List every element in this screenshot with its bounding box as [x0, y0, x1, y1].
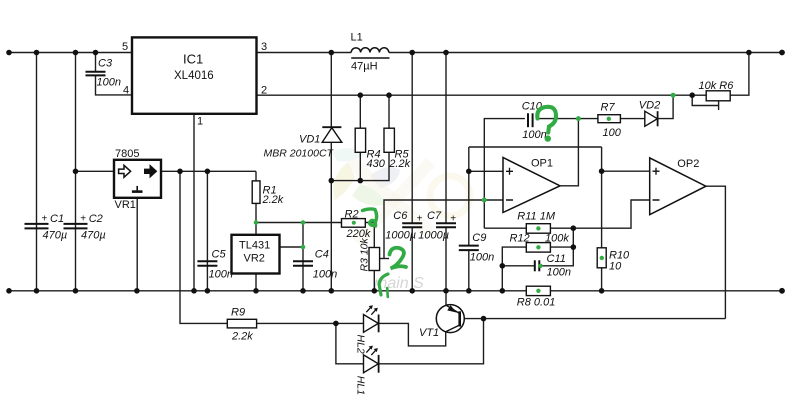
green annotation check mark at R3 bottom — [379, 274, 388, 295]
wire 7805 ground — [136, 192, 138, 291]
green annotation numeral 2 — [390, 248, 407, 269]
node R3 ground junction — [372, 288, 378, 294]
wire VD2 to feedback node — [658, 95, 674, 118]
wire C3 to pin4 — [96, 76, 133, 95]
svg-text:2.2k: 2.2k — [388, 158, 410, 170]
svg-text:C1: C1 — [50, 213, 64, 225]
wire VT1 base line — [460, 318, 726, 320]
capacitor C9 — [459, 232, 494, 264]
wire R6 left — [692, 94, 706, 96]
node C5 ground junction — [205, 288, 211, 294]
svg-text:VR1: VR1 — [115, 199, 136, 211]
svg-text:C3: C3 — [98, 58, 113, 70]
svg-text:R9: R9 — [231, 306, 245, 318]
svg-text:100n: 100n — [470, 252, 494, 264]
svg-text:+: + — [417, 214, 423, 225]
svg-text:VR2: VR2 — [244, 252, 265, 264]
wire HL1 cathode to VT1 base — [379, 319, 484, 364]
node VR2 ground junction — [253, 288, 259, 294]
wire link OP1 plus to OP2 plus — [469, 146, 602, 148]
node C7 output rail junction — [443, 50, 449, 56]
wire OP2 plus input — [602, 170, 650, 172]
resistor R7 — [598, 102, 622, 140]
node OP1 noninverting junction — [466, 169, 472, 175]
svg-text:4: 4 — [123, 85, 129, 97]
svg-text:2.2k: 2.2k — [231, 331, 253, 343]
capacitor C1 — [25, 213, 68, 242]
svg-text:C9: C9 — [472, 232, 486, 244]
svg-text:R11 1M: R11 1M — [517, 210, 556, 222]
svg-text:IC1: IC1 — [183, 52, 203, 67]
node output terminal positive — [779, 50, 785, 56]
node VD1 anode junction — [329, 178, 335, 184]
LED HL2 — [355, 305, 379, 354]
wire R1 to 7805 output — [255, 171, 257, 181]
svg-text:2.2k: 2.2k — [262, 194, 284, 206]
IC box IC1 XL4016 — [122, 37, 267, 127]
wire 7805 input — [76, 170, 115, 172]
svg-text:C11: C11 — [547, 253, 566, 265]
node output terminal negative — [779, 288, 785, 294]
resistor R11 — [517, 210, 556, 233]
svg-text:470µ: 470µ — [43, 230, 68, 242]
capacitor C10 — [522, 101, 547, 141]
wire R1 to TL431 — [255, 203, 257, 234]
svg-text:VD1: VD1 — [299, 134, 320, 146]
node VD1 cathode rail junction — [329, 50, 335, 56]
svg-text:100n: 100n — [97, 77, 121, 89]
svg-text:XL4016: XL4016 — [174, 70, 214, 82]
svg-text:+: + — [450, 214, 456, 225]
capacitor C11 — [535, 253, 571, 279]
svg-text:5: 5 — [122, 41, 128, 53]
wire R2 to R3 — [365, 223, 374, 248]
svg-text:C4: C4 — [315, 249, 329, 261]
wire C1 branch — [36, 53, 38, 291]
resistor R5 — [384, 128, 411, 170]
node input terminal negative — [6, 288, 12, 294]
svg-text:100n: 100n — [522, 129, 546, 141]
wire R11 right to OP2 inverting — [550, 200, 649, 228]
node 7805 input junction — [73, 169, 79, 175]
node OP2 noninverting junction — [599, 168, 605, 174]
wire R9 right to HL2 — [257, 322, 364, 324]
node C7 VT1 emitter ground junction — [443, 288, 449, 294]
node R12 C11 ground junction — [500, 288, 506, 294]
svg-text:470µ: 470µ — [81, 230, 106, 242]
green annotation tick on rail — [386, 288, 389, 297]
node R4 top junction — [358, 92, 364, 98]
svg-text:+: + — [42, 214, 48, 225]
resistor R12 — [510, 232, 570, 252]
LED HL1 — [355, 346, 379, 395]
annotation dot OP1 inverting node — [482, 198, 487, 203]
wire R5 top — [388, 95, 390, 128]
wire R12 left — [502, 247, 526, 291]
wire C5 branch — [206, 171, 208, 290]
node R6 left feedback junction — [689, 92, 695, 98]
annotation dot R7 body — [607, 117, 611, 121]
svg-text:100n: 100n — [313, 268, 337, 280]
wire R4 R5 bottoms — [331, 152, 389, 180]
svg-text:OP1: OP1 — [531, 158, 553, 170]
svg-text:100: 100 — [603, 127, 622, 139]
node C6 ground junction — [409, 288, 415, 294]
annotation dot C11 — [538, 264, 542, 268]
node C2 top junction — [73, 50, 79, 56]
node C11 left junction — [500, 263, 506, 269]
wire top rail left — [7, 52, 132, 54]
svg-text:VT1: VT1 — [419, 327, 439, 339]
capacitor C3 — [86, 58, 121, 89]
wire R12 right — [550, 246, 573, 248]
node VT1 base junction — [481, 316, 487, 322]
green annotation dots — [254, 93, 676, 293]
trimmer R3 — [358, 237, 379, 271]
wire TL431 ref pin — [280, 246, 304, 248]
wire C4 branch — [302, 223, 304, 291]
wire R10 branch — [601, 147, 603, 248]
svg-text:TL431: TL431 — [239, 239, 270, 251]
svg-text:C5: C5 — [212, 249, 227, 261]
svg-text:100n: 100n — [209, 268, 233, 280]
svg-text:R7: R7 — [601, 102, 616, 114]
node R6 riser rail junction — [746, 50, 752, 56]
node C5 top junction — [205, 169, 211, 175]
svg-text:2: 2 — [261, 85, 267, 97]
green annotation question mark at C10 — [537, 107, 556, 142]
shunt regulator VR2 TL431 — [232, 235, 280, 274]
shunt resistor R8 — [517, 286, 556, 308]
wire R6 wiper loop — [692, 95, 718, 105]
resistor R2 — [342, 208, 371, 240]
wire ref line TL431 to R2 — [256, 222, 342, 224]
wire R6 right to top rail — [730, 53, 749, 96]
node C2 ground junction — [73, 288, 79, 294]
capacitor C4 — [293, 249, 337, 281]
diode VD1 — [264, 127, 342, 159]
svg-text:10k R6: 10k R6 — [699, 80, 735, 92]
annotation dot R12 body — [536, 245, 540, 249]
svg-text:1000µ: 1000µ — [418, 229, 449, 241]
resistor R1 — [252, 181, 284, 206]
wire C10 right to R7 — [536, 118, 598, 120]
resistor R10 — [597, 248, 630, 272]
svg-text:220k: 220k — [346, 228, 371, 240]
annotation dot VD2 feedback node — [671, 93, 676, 98]
inductor L1 — [351, 32, 390, 73]
wire C11 left — [502, 265, 534, 267]
wire R9 left riser — [180, 171, 227, 323]
node VD1 ground junction — [329, 288, 335, 294]
svg-text:430: 430 — [367, 158, 386, 170]
node C1 ground junction — [34, 288, 40, 294]
wire C10 left to inverting node — [484, 119, 525, 229]
wire C6 branch — [411, 53, 413, 223]
node VR1 ground junction — [134, 288, 140, 294]
svg-text:+: + — [80, 214, 86, 225]
wire pin1 to ground — [193, 114, 195, 291]
wire R3 wiper to OP1 inverting input — [380, 258, 389, 260]
node C3 top junction — [93, 50, 99, 56]
wire bottom ground rail — [7, 290, 784, 292]
svg-text:1: 1 — [197, 116, 203, 128]
capacitor C2 — [64, 213, 106, 242]
annotation dot node C4 top — [301, 220, 306, 225]
annotation dot R11 body — [536, 226, 540, 230]
svg-text:C2: C2 — [89, 213, 103, 225]
svg-text:OP2: OP2 — [677, 158, 699, 170]
node input terminal positive — [6, 50, 12, 56]
annotation dot R2 body — [352, 221, 356, 225]
svg-text:HL1: HL1 — [355, 376, 367, 395]
watermark — [332, 148, 470, 292]
node R5 top junction — [386, 92, 392, 98]
node C4 ground junction — [300, 288, 306, 294]
annotation dot node TL431 ref — [301, 245, 306, 250]
wire top rail after L1 — [389, 52, 784, 54]
wire OP1 output — [560, 119, 578, 186]
wire 7805 output — [161, 170, 256, 172]
svg-text:VD2: VD2 — [639, 100, 660, 112]
capacitor C5 — [197, 249, 233, 281]
annotation dot node R1 TL431 — [254, 220, 259, 225]
wire OP1 plus input — [469, 170, 503, 172]
regulator VR1 7805 — [114, 148, 161, 211]
opamp OP1 — [503, 158, 560, 213]
wire C2 / 7805 input branch — [75, 53, 77, 291]
wire VD1 anode down — [330, 142, 332, 290]
node R12 right junction — [571, 244, 577, 250]
wire TL431 cathode to ground — [255, 274, 257, 291]
node HL1 HL2 anode junction — [333, 321, 339, 327]
wire HL2 cathode to VT1 collector — [379, 323, 446, 346]
wire top rail right of IC1 — [257, 52, 352, 54]
wire VT1 emitter to ground rail — [445, 291, 447, 306]
node C9 ground junction — [466, 288, 472, 294]
capacitor C7 — [418, 210, 456, 242]
wire R4 top — [359, 95, 361, 128]
node R11 R12 junction — [571, 225, 577, 231]
svg-text:1000µ: 1000µ — [385, 229, 416, 241]
svg-text:100k: 100k — [545, 232, 569, 244]
wire OP2 output to VT1 base — [706, 186, 726, 318]
wire C3 branch — [95, 53, 97, 72]
wire VD1 branch — [330, 53, 332, 128]
wire pin2 line — [257, 94, 693, 96]
svg-text:R2: R2 — [345, 208, 359, 220]
wire C7 branch — [445, 53, 447, 223]
node C1 top junction — [34, 50, 40, 56]
resistor R9 — [227, 306, 256, 342]
svg-text:100n: 100n — [547, 266, 571, 278]
resistor R4 — [355, 128, 386, 170]
wire R7 to VD2 — [620, 118, 644, 120]
svg-text:7805: 7805 — [115, 148, 139, 160]
trimmer R6 — [699, 80, 735, 101]
wire R11 left — [484, 227, 526, 229]
node C6 output rail junction — [409, 50, 415, 56]
capacitor C6 — [385, 210, 422, 242]
svg-text:R12: R12 — [510, 232, 530, 244]
node R9 supply junction — [177, 169, 183, 175]
svg-text:10: 10 — [609, 260, 622, 272]
svg-text:R3 10k: R3 10k — [358, 237, 370, 271]
svg-text:47µH: 47µH — [351, 61, 378, 73]
svg-text:L1: L1 — [351, 32, 363, 44]
wire C9 / OP1 noninverting branch — [468, 147, 470, 245]
opamp OP2 — [650, 158, 706, 215]
node R10 ground junction — [599, 288, 605, 294]
svg-text:HL2: HL2 — [355, 335, 367, 354]
wire R3 to ground — [373, 271, 375, 291]
annotation dot C10 R7 node — [576, 116, 581, 121]
wire C11 right riser — [540, 228, 573, 266]
node IC1 pin1 ground junction — [191, 288, 197, 294]
transistor VT1 — [419, 305, 464, 339]
svg-text:C7: C7 — [427, 210, 442, 222]
wire HL1 anode branch — [336, 323, 364, 363]
svg-text:R8 0.01: R8 0.01 — [517, 296, 556, 308]
svg-text:3: 3 — [261, 41, 267, 53]
svg-text:MBR 20100CT: MBR 20100CT — [264, 147, 335, 159]
node R4 bottom junction — [358, 178, 364, 184]
green annotation bracket at R2 R3 — [363, 209, 377, 226]
diode VD2 — [639, 100, 660, 127]
annotation dot R10 body — [600, 256, 604, 260]
annotation dot R8 body — [536, 289, 540, 293]
svg-text:C6: C6 — [393, 210, 408, 222]
